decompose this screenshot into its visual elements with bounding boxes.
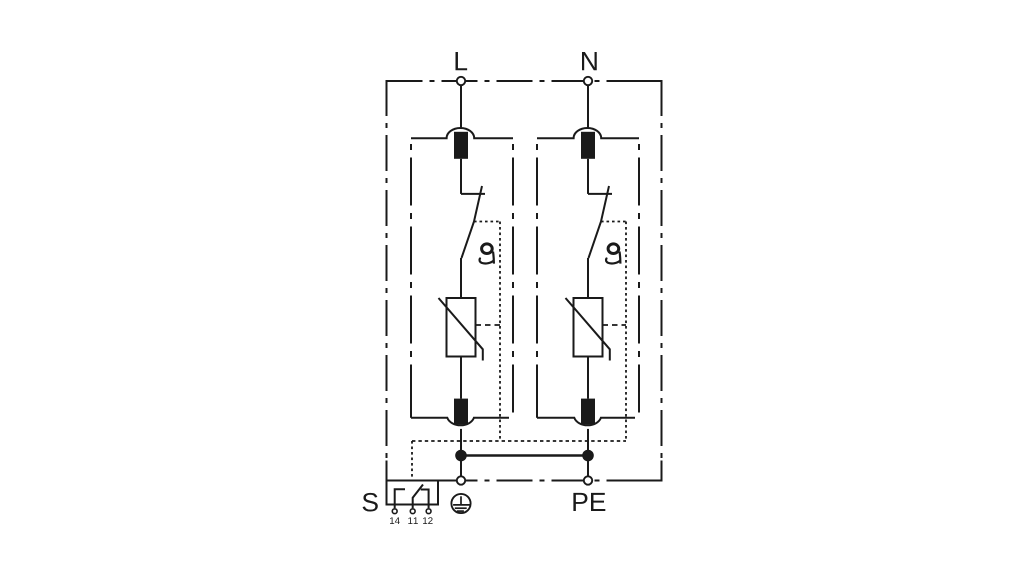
- thermal linkage dotted: L varistor stub: [476, 324, 501, 326]
- label N: [582, 52, 597, 70]
- label PE: [573, 493, 605, 511]
- wire contact to disconnector L: [460, 159, 462, 194]
- enclosure dash-dot border left edge: [386, 80, 388, 482]
- wire L terminal to top contact: [460, 86, 462, 129]
- protective earth symbol: bar 1: [453, 504, 470, 506]
- junction dot N: [582, 450, 594, 462]
- contact terminal circle 12: [426, 509, 431, 514]
- top plug-in contact N: blade (filled): [581, 132, 595, 159]
- varistor N: strike line with hook: [566, 298, 610, 361]
- protective earth symbol: bar 2: [455, 507, 467, 509]
- wire disconnector to varistor L: [460, 258, 462, 298]
- thermal linkage dotted: N switch stub: [601, 221, 626, 223]
- bottom plug-in contact N: base line and arc: [537, 418, 635, 425]
- terminal circle PE-left: [457, 476, 465, 484]
- wire N terminal to top contact: [587, 86, 589, 129]
- thermal linkage dotted: drop to signal contact: [411, 441, 413, 481]
- thermal disconnector switch N: blade: [589, 186, 610, 258]
- thermal linkage dotted: N vertical: [625, 222, 627, 442]
- junction dot L: [455, 450, 467, 462]
- wire disconnector to varistor N: [587, 258, 589, 298]
- remote signalling contact box: [387, 481, 439, 505]
- label L: [455, 52, 467, 70]
- contact 12 fixed piece: [421, 490, 429, 509]
- module frame right branch: dash-dot sides: [536, 144, 538, 418]
- terminal number 14: [390, 517, 400, 524]
- bottom plug-in contact L: base line and arc: [411, 418, 509, 425]
- enclosure dash-dot border top edge: [387, 80, 662, 82]
- thermal disconnector switch N: fixed contact: [588, 193, 612, 195]
- enclosure dash-dot border bottom edge: [387, 480, 662, 482]
- theta symbol left (thermal): [479, 244, 494, 264]
- thermal disconnector switch L: blade: [462, 186, 483, 258]
- terminal number 11: [408, 517, 418, 524]
- label S: [363, 493, 378, 512]
- protective earth symbol: bar 3: [457, 510, 464, 512]
- thermal disconnector switch L: fixed contact: [461, 193, 485, 195]
- terminal number 12: [423, 517, 433, 524]
- contact 14 fixed L-piece: [395, 489, 405, 508]
- wire junction to bottom terminal N: [587, 456, 589, 477]
- thermal linkage dotted: L switch stub: [474, 221, 500, 223]
- top plug-in contact L: blade (filled): [454, 132, 468, 159]
- contact 11 pole and blade: [413, 485, 423, 509]
- varistor L: strike line with hook: [439, 298, 483, 361]
- thermal linkage dotted: L vertical: [499, 222, 501, 442]
- bottom plug-in contact L: blade (filled): [454, 399, 468, 425]
- protective earth symbol: stem: [460, 496, 462, 505]
- wire bottom contact to junction N: [587, 429, 589, 456]
- thermal linkage dotted: bottom horizontal: [412, 440, 626, 442]
- enclosure border corner caps: [387, 81, 662, 481]
- terminal circle L: [457, 77, 465, 85]
- top plug-in contact L: base line and arc: [411, 128, 513, 138]
- varistor N: body: [574, 298, 603, 357]
- PE bus junction line: [461, 454, 588, 456]
- varistor L: body: [447, 298, 476, 357]
- terminal circle N: [584, 77, 592, 85]
- wire varistor to bottom contact N: [587, 357, 589, 399]
- wire junction to bottom terminal L: [460, 456, 462, 477]
- top plug-in contact N: base line and arc: [537, 128, 639, 138]
- protective earth symbol: circle: [451, 494, 470, 513]
- terminal circle PE: [584, 476, 592, 484]
- module frame left branch: dash-dot sides: [410, 144, 412, 418]
- bottom plug-in contact N: blade (filled): [581, 399, 595, 425]
- enclosure dash-dot border right edge: [661, 80, 663, 482]
- theta symbol right (thermal): [605, 244, 620, 264]
- wire contact to disconnector N: [587, 159, 589, 194]
- thermal linkage dotted: N varistor stub: [603, 324, 627, 326]
- contact terminal circle 14: [392, 509, 397, 514]
- wire varistor to bottom contact L: [460, 357, 462, 399]
- contact terminal circle 11: [410, 509, 415, 514]
- wire bottom contact to junction L: [460, 429, 462, 456]
